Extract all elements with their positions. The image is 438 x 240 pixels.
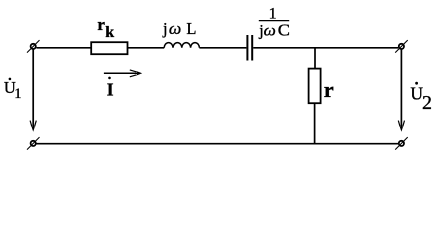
wire top: capacitor to terminal top-right: [253, 47, 398, 49]
svg-text:ω: ω: [169, 19, 181, 38]
wire top: resistor to inductor: [128, 47, 165, 49]
label U2 (U̇2): [410, 82, 432, 114]
wire top: inductor to capacitor: [199, 47, 246, 49]
wire right vertical with voltage arrow U2: [398, 49, 404, 131]
label r_k: [97, 15, 114, 41]
wire: branch junction down to resistor r: [314, 48, 316, 69]
wire bottom: left terminal to right terminal: [36, 143, 398, 145]
svg-text:r: r: [97, 15, 105, 34]
inductor L (jωL): [164, 43, 199, 48]
terminal top-right: [395, 40, 408, 53]
wire: resistor r to bottom wire: [314, 103, 316, 143]
svg-text:j: j: [162, 19, 168, 38]
svg-text:L: L: [186, 19, 196, 38]
label 1/jωC: [258, 5, 290, 39]
svg-text:1: 1: [14, 86, 21, 102]
terminal top-left: [27, 40, 40, 53]
current arrow I: [104, 70, 142, 77]
svg-text:2: 2: [422, 92, 432, 114]
wire left vertical with voltage arrow U1: [30, 49, 36, 131]
terminal bottom-right: [395, 137, 408, 150]
label I (İ): [107, 77, 114, 100]
terminal bottom-left: [27, 137, 40, 150]
resistor R1 (r_k): [91, 42, 127, 54]
svg-text:r: r: [324, 77, 334, 102]
svg-text:ω: ω: [264, 22, 276, 39]
label U1 (U̇1): [4, 78, 22, 102]
svg-text:C: C: [278, 20, 290, 39]
svg-text:1: 1: [269, 5, 277, 22]
svg-text:k: k: [105, 24, 114, 41]
resistor R2 (r): [309, 69, 321, 104]
capacitor C: [247, 35, 252, 61]
label jωL: [162, 19, 196, 38]
svg-text:I: I: [107, 79, 114, 99]
wire top: left terminal to resistor r_k: [36, 47, 91, 49]
